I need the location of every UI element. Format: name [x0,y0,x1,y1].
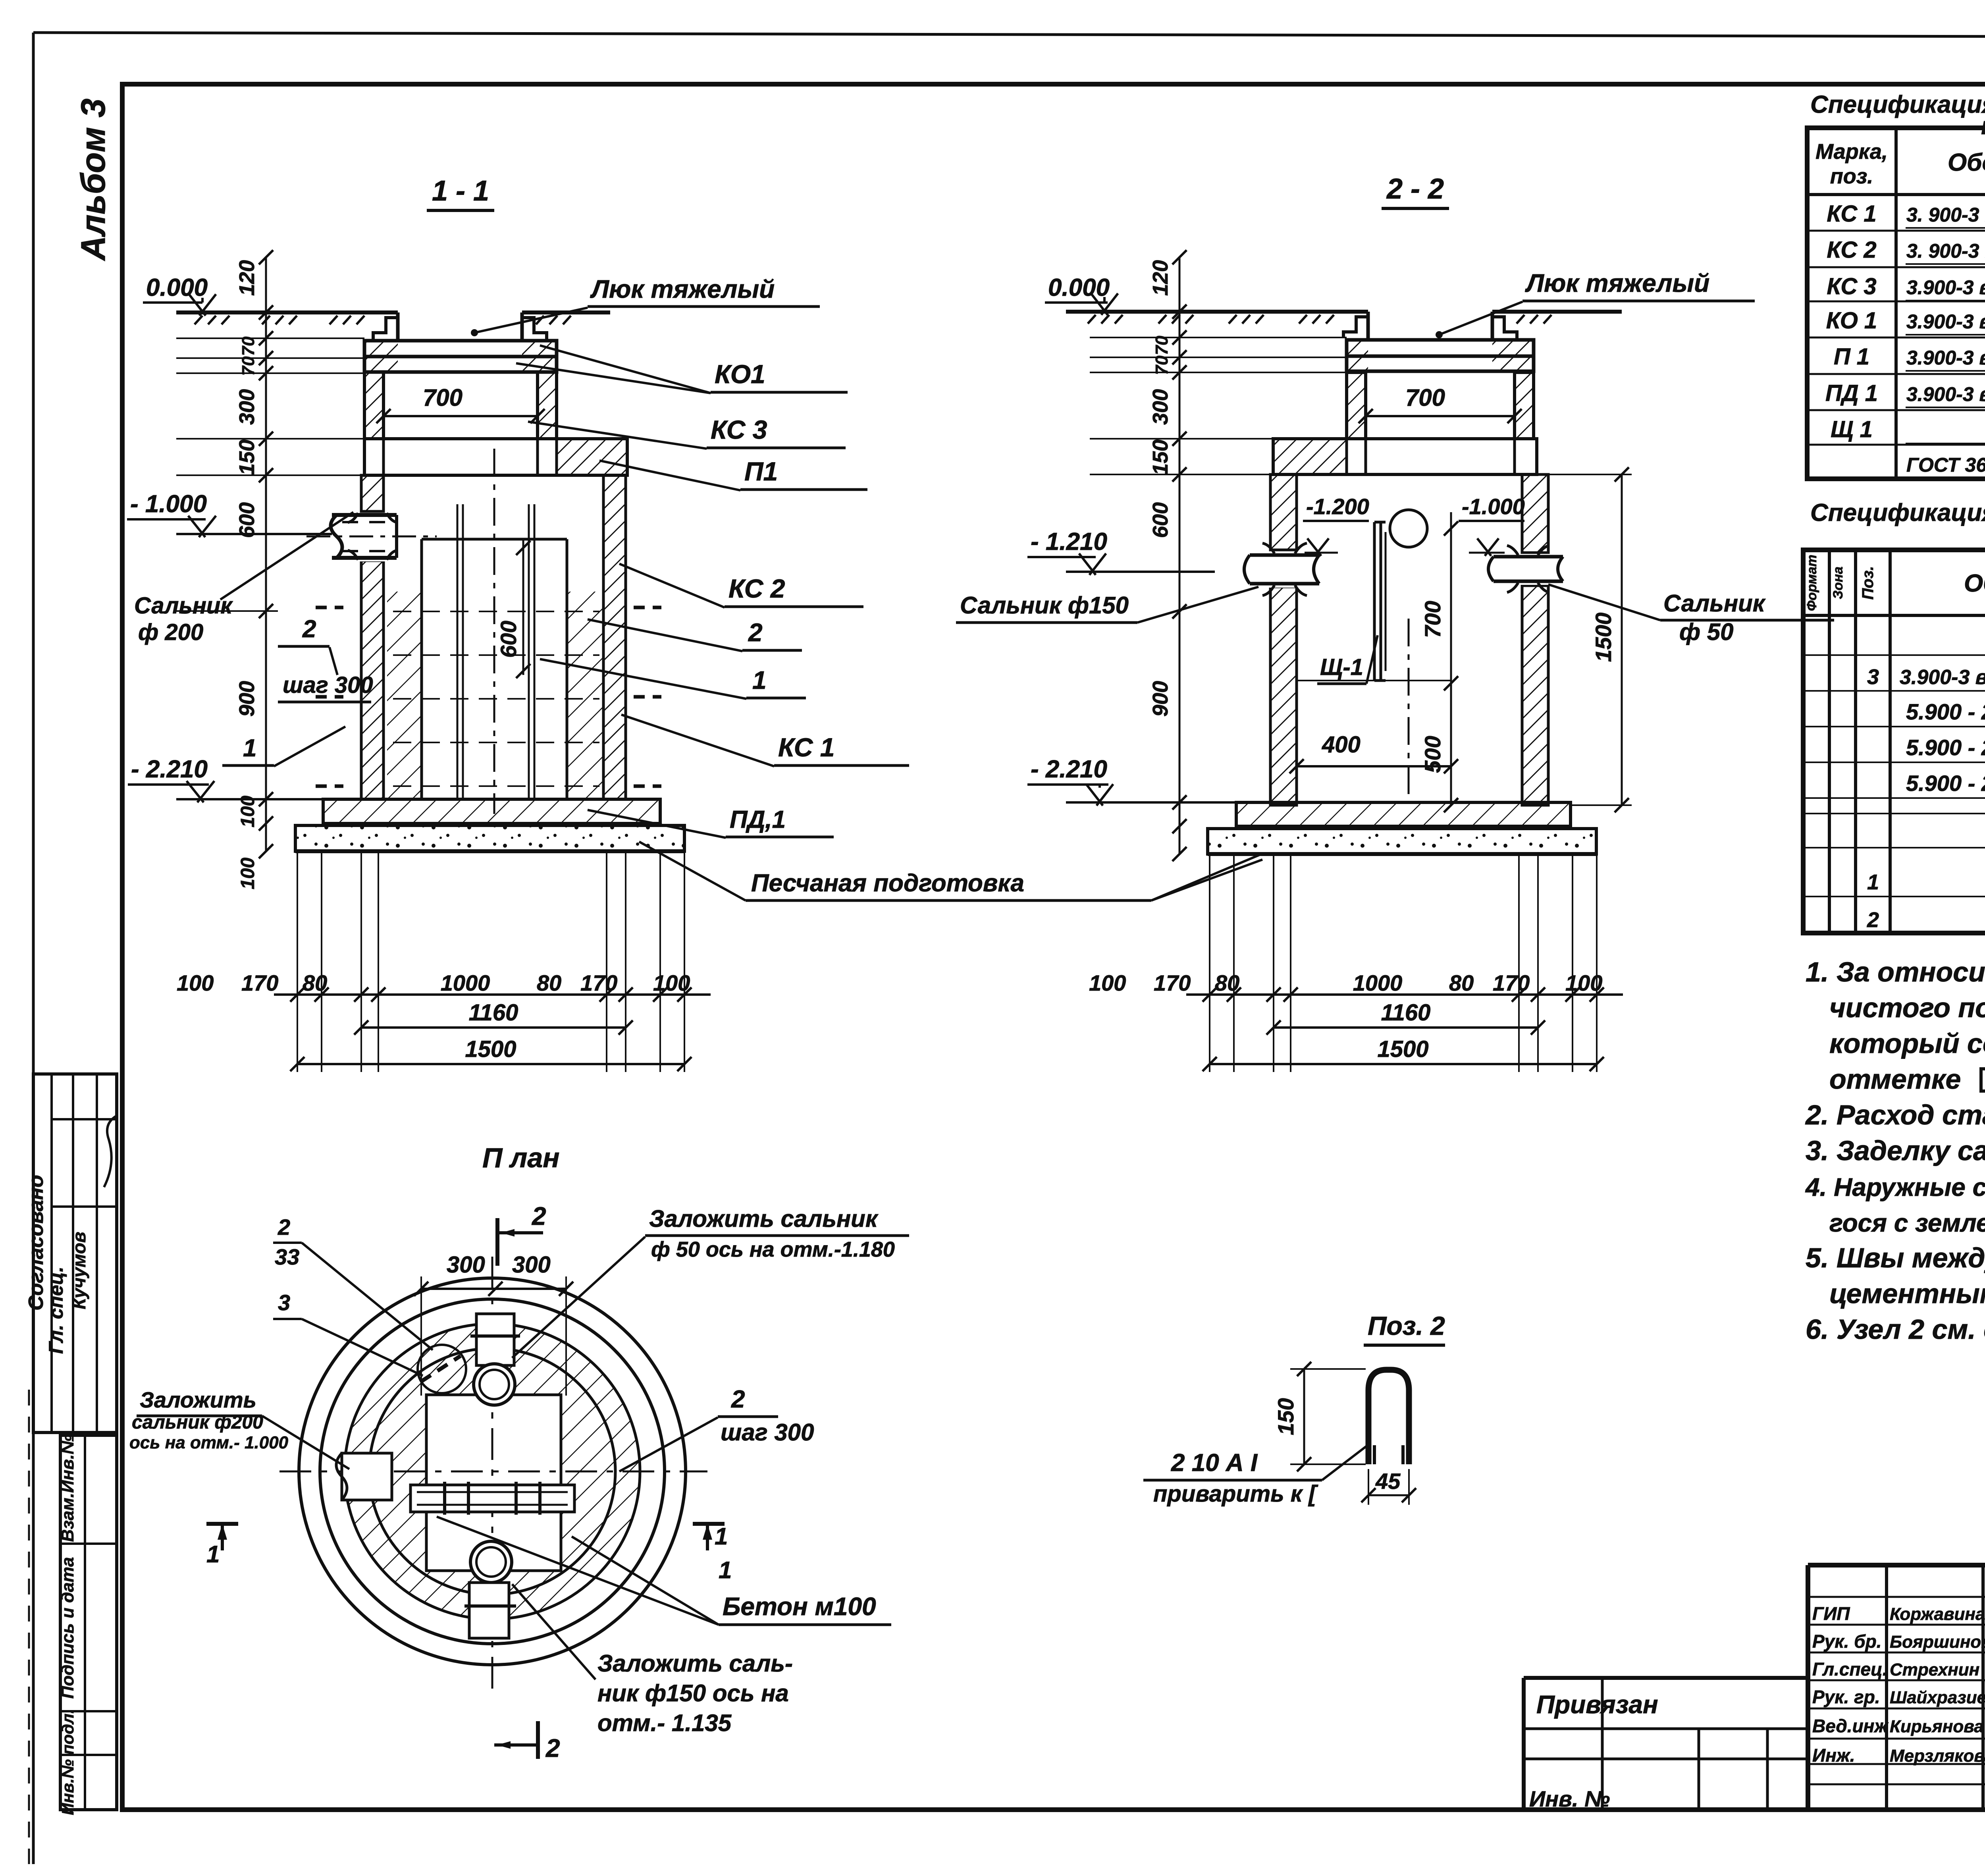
table1 outer box [1807,128,1985,479]
svg-text:1: 1 [715,1523,728,1550]
bottom slab PD1 (2-2) [1236,802,1571,826]
attachment table box [1524,1676,1808,1680]
svg-text:поз.: поз. [1830,164,1873,188]
svg-text:80: 80 [303,970,327,995]
svg-text:2 10 А I: 2 10 А I [1171,1449,1258,1477]
chamber rebar verticals (1-1) [457,504,459,799]
table1 header bottom line [1807,193,1985,196]
svg-text:Гл.спец.: Гл.спец. [1812,1659,1888,1679]
svg-text:шаг 300: шаг 300 [721,1419,814,1446]
svg-text:1000: 1000 [1353,970,1403,995]
svg-text:ПД,1: ПД,1 [730,806,786,833]
plan section mark 2 top [495,1218,499,1266]
svg-text:0.000: 0.000 [146,274,208,301]
chamber interior verticals (2-2) [1408,619,1410,802]
table1 column lines [1894,128,1898,479]
svg-text:2: 2 [278,1215,290,1240]
section 2-2 ground line [1066,310,1368,314]
svg-text:Формат: Формат [1804,555,1819,611]
svg-text:600: 600 [235,502,259,538]
manhole curb L-profile left (2-2) [1343,317,1368,338]
svg-text:170: 170 [241,970,278,995]
svg-text:Вед.инж: Вед.инж [1812,1716,1889,1736]
svg-text:Взам.Инв.№: Взам.Инв.№ [58,1434,77,1542]
svg-text:отм.- 1.135: отм.- 1.135 [597,1710,732,1736]
svg-text:120: 120 [235,260,259,296]
svg-text:45: 45 [1375,1469,1401,1494]
svg-text:100: 100 [237,796,258,827]
svg-text:120: 120 [1149,260,1172,296]
dim 1500 (1-1) [297,1063,684,1065]
svg-text:5. Швы между кольцами и: 5. Швы между кольцами и плитами заделать [1806,1242,1985,1273]
svg-text:Поз.: Поз. [1859,566,1877,600]
level line -2.210 (2-2) [1066,801,1236,804]
svg-text:ф 50 ось на отм.-1.180: ф 50 ось на отм.-1.180 [651,1238,895,1261]
svg-text:Подпись и дата: Подпись и дата [58,1557,77,1699]
svg-text:Песчаная подготовка: Песчаная подготовка [751,870,1024,897]
plan section mark 2 bottom [536,1721,540,1759]
svg-text:300: 300 [235,389,259,425]
svg-text:3: 3 [1867,665,1879,689]
svg-text:-1.000: -1.000 [1462,494,1525,519]
svg-text:Заложить сальник: Заложить сальник [649,1205,879,1232]
svg-text:ось на отм.- 1.000: ось на отм.- 1.000 [129,1433,289,1452]
stamp block Взам.инв / Подпись и дата / Инв.№ подл. [60,1435,117,1810]
ground hatch left (2-2) [1088,315,1096,324]
vertical dim 1500 right (2-2) [1621,474,1623,805]
svg-text:Шайхразиев: Шайхразиев [1890,1688,1985,1707]
svg-text:900: 900 [235,681,259,717]
svg-text:100: 100 [237,858,258,889]
svg-text:Привязан: Привязан [1536,1690,1658,1719]
monolithic fill hatch left (1-1) [387,592,422,799]
svg-text:70: 70 [1152,335,1172,355]
svg-text:цементным раствором марки: цементным раствором марки 100. [1829,1278,1985,1309]
svg-text:шаг 300: шаг 300 [283,672,373,698]
svg-text:1160: 1160 [1381,1000,1431,1026]
svg-text:П1: П1 [744,457,778,486]
svg-text:Сальник: Сальник [1663,590,1766,617]
svg-text:3.900-3 вып. 7 часть2: 3.900-3 вып. 7 часть2 [1900,666,1985,689]
svg-text:3.900-3 вып. 7 часть 1: 3.900-3 вып. 7 часть 1 [1906,310,1985,333]
svg-text:ГОСТ 3634 -79: ГОСТ 3634 -79 [1906,454,1985,476]
svg-text:6. Узел 2 см. серию 3. 90: 6. Узел 2 см. серию 3. 900 - 3 вып. 7 ча… [1806,1314,1985,1345]
svg-text:100: 100 [653,970,690,995]
svg-text:Гл. спец.: Гл. спец. [45,1267,67,1354]
svg-text:Инж.: Инж. [1812,1745,1855,1766]
svg-text:Рук. гр.: Рук. гр. [1812,1687,1880,1707]
dim 1500 (2-2) [1210,1063,1597,1065]
svg-text:Спецификация сборных констру: Спецификация сборных конструкций на отст… [1810,91,1985,118]
plan left pipe ф200 [342,1453,392,1500]
shield Щ-1 plate (2-2) [1373,522,1376,681]
plan section mark 1 right [693,1522,725,1526]
plan salnik circle top [474,1364,515,1405]
gland pipe ф150 left (2-2) [1246,552,1325,588]
svg-text:Заложить саль-: Заложить саль- [597,1650,793,1677]
chamber axis dash-dot (1-1) [493,449,495,814]
staple marks row left (1-1) [316,606,343,609]
svg-text:80: 80 [1215,970,1239,995]
svg-text:Бояршинов: Бояршинов [1890,1632,1985,1652]
shaft wall right KC2/KC1 (1-1) [603,475,626,799]
plan inner circle [369,1348,615,1595]
svg-text:2. Расход стали на монолитн: 2. Расход стали на монолитные участки 8,… [1805,1099,1985,1130]
svg-text:300: 300 [1149,389,1172,425]
svg-text:Кирьянова: Кирьянова [1890,1717,1984,1736]
svg-text:Согласовано: Согласовано [25,1175,48,1311]
svg-text:П 1: П 1 [1834,344,1869,370]
svg-text:70: 70 [239,356,258,376]
svg-text:1: 1 [1867,870,1879,894]
staple U-shape (Поз.2) [1368,1370,1409,1464]
svg-text:1. За относительную отметку: 1. За относительную отметку 0.000 принят… [1806,956,1985,987]
plan outer circle [299,1278,686,1665]
svg-text:гося с землей обмазать гор: гося с землей обмазать горячим битумом з… [1829,1209,1985,1237]
svg-text:Инв. №: Инв. № [1529,1786,1610,1811]
svg-text:Стрехнин: Стрехнин [1890,1660,1979,1679]
svg-text:Обозначение: Обозначение [1948,149,1985,176]
KO1 leaders [540,345,711,393]
dim row 100-170-80-1000-80-170-100 (1-1) [274,993,711,996]
manhole frame verticals (2-2) [1366,312,1370,340]
section 1-1 ground line [176,310,398,314]
dim 45 (Поз.2) [1368,1494,1409,1496]
svg-text:100: 100 [1089,970,1126,995]
svg-text:КС 2: КС 2 [728,574,785,603]
svg-text:300: 300 [447,1252,485,1278]
paper fold dashed line [28,1390,30,1864]
svg-text:5.900 - 2: 5.900 - 2 [1906,735,1985,760]
svg-text:-1.200: -1.200 [1306,494,1369,519]
neck ring KC3 (1-1) [364,372,384,439]
vertical dim 700/500 (2-2) [1450,512,1452,805]
svg-text:Инв.№ подл.: Инв.№ подл. [58,1709,77,1815]
svg-text:100: 100 [1565,970,1602,995]
svg-text:3: 3 [278,1290,290,1315]
level line -1.000 (1-1) [176,533,332,535]
svg-text:1: 1 [752,666,767,694]
table2 outer box [1803,550,1985,933]
svg-text:сальник ф200: сальник ф200 [132,1412,263,1433]
ground hatching left of cover [195,316,202,324]
svg-text:3.900-3 вып. 7 часть 1: 3.900-3 вып. 7 часть 1 [1906,347,1985,369]
thin horizontal ties (1-1) [393,611,599,612]
gland collar flares (1-1) [348,513,397,560]
svg-text:4. Наружные стены колодца -: 4. Наружные стены колодца - отстойника, … [1805,1173,1985,1201]
svg-text:3.900-3 вып.7 часть 1: 3.900-3 вып.7 часть 1 [1906,383,1985,405]
svg-text:2 - 2: 2 - 2 [1386,173,1444,205]
manhole frame verticals (1-1) [396,312,400,341]
svg-text:Спецификация изделий на отс: Спецификация изделий на отстойный колоде… [1810,499,1985,526]
gland collar flares left pipe (2-2) [1262,543,1307,596]
leader from sand to Песчаная label [1151,854,1262,900]
projection lines below (2-2) [1209,854,1210,1072]
svg-text:ГИП: ГИП [1812,1603,1850,1624]
svg-text:Щ-1: Щ-1 [1320,654,1363,680]
svg-text:- 2.210: - 2.210 [131,756,208,783]
table2 header bottom line [1803,614,1985,617]
chain extension lines (2-2) [1090,337,1347,338]
chain extension lines (1-1) [176,337,364,339]
plan chamber square [426,1395,561,1571]
dim 1160 (2-2) [1274,1026,1538,1029]
svg-text:П лан: П лан [482,1142,560,1173]
shaft wall right (2-2) [1522,474,1548,553]
svg-text:ф 200: ф 200 [138,619,203,645]
svg-text:170: 170 [580,970,617,995]
svg-text:Люк тяжелый: Люк тяжелый [590,275,775,303]
svg-text:0.000: 0.000 [1048,274,1110,301]
svg-text:80: 80 [537,970,561,995]
svg-text:приварить к [: приварить к [ [1153,1481,1318,1507]
cover slab P1 (1-1) [364,439,627,475]
plan detail blob (узел 3) [418,1345,466,1393]
svg-text:ф 50: ф 50 [1679,619,1734,645]
svg-text:Поз. 2: Поз. 2 [1368,1311,1445,1340]
svg-text:170: 170 [1493,970,1530,995]
svg-text:1160: 1160 [469,1000,518,1026]
svg-text:3.900-3 вып. 7 часть 1: 3.900-3 вып. 7 часть 1 [1906,276,1985,299]
leader salnik200 [220,512,353,600]
svg-text:КС 3: КС 3 [711,415,767,444]
svg-text:отметке: отметке [1829,1064,1961,1095]
leader (Поз.2) [1322,1445,1368,1480]
outer sheet border [33,33,1985,38]
svg-text:1: 1 [719,1557,732,1583]
svg-text:Обозначение: Обозначение [1964,570,1985,597]
plan center crosshair [279,1471,707,1473]
plan section mark 1 left [206,1522,238,1526]
dim 1160 (1-1) [361,1026,626,1029]
ground hatch right (2-2) [1517,315,1524,324]
shaft wall left (2-2) [1270,474,1297,550]
svg-text:70: 70 [1152,355,1172,375]
svg-text:Мерзлякова: Мерзлякова [1890,1746,1985,1766]
svg-text:400: 400 [1322,732,1361,758]
plan crossbeam channel [410,1485,574,1512]
svg-text:- 1.000: - 1.000 [130,490,207,518]
svg-text:- 1.210: - 1.210 [1031,528,1107,555]
leader to cover (1-1) [474,308,588,333]
cover slab P1 (2-2) [1273,439,1537,474]
svg-text:3. Заделку сальников см. се: 3. Заделку сальников см. серию 5. 900 - … [1806,1135,1985,1166]
dim row (2-2) [1186,993,1623,996]
svg-text:5.900 - 2: 5.900 - 2 [1906,771,1985,796]
svg-text:1: 1 [206,1541,220,1568]
dim 150 (Поз.2) [1303,1369,1305,1464]
plan ring wall circle [345,1324,640,1619]
svg-text:- 2.210: - 2.210 [1031,756,1107,783]
svg-text:1: 1 [243,735,256,762]
manhole curb L-profile left (1-1) [373,318,398,339]
svg-text:КО1: КО1 [715,359,765,389]
svg-text:2: 2 [748,618,763,647]
signature table columns [1885,1565,1888,1810]
left dimension chain (1-1) [265,257,267,851]
svg-text:Кучумов: Кучумов [69,1232,89,1309]
sand bed (1-1) [295,825,684,851]
empty elevation box in note 1 [1981,1069,1985,1091]
svg-text:5.900 - 2: 5.900 - 2 [1906,699,1985,724]
svg-text:2: 2 [302,615,316,643]
svg-text:2: 2 [1867,908,1879,932]
inner chamber walls (1-1) [420,539,423,799]
pipe axis dash-dot (1-1) [306,536,437,538]
svg-text:600: 600 [1149,502,1172,538]
gland pipe ф50 right (2-2) [1490,554,1569,585]
signature table rows [1808,1596,1985,1598]
svg-text:КО 1: КО 1 [1826,308,1877,334]
title block top line [1808,1563,1985,1568]
svg-text:700: 700 [1420,601,1445,638]
svg-text:Щ 1: Щ 1 [1831,416,1873,442]
svg-text:КС 2: КС 2 [1827,237,1876,263]
svg-text:2: 2 [731,1386,745,1413]
svg-text:Коржавина: Коржавина [1890,1604,1985,1624]
svg-text:150: 150 [235,440,259,475]
svg-text:Заложить: Заложить [140,1387,256,1412]
table2 column lines [1828,550,1831,933]
svg-text:170: 170 [1154,970,1191,995]
svg-text:чистого пола производствен: чистого пола производственного корпуса N… [1829,992,1985,1023]
neck ring KC3 (2-2) [1347,372,1366,439]
svg-text:Сальник: Сальник [134,593,233,619]
svg-text:1 - 1: 1 - 1 [432,175,489,207]
svg-text:1500: 1500 [1377,1036,1428,1062]
svg-text:1500: 1500 [465,1036,516,1062]
gland seal pipe ф200 (1-1) [327,513,399,561]
svg-text:700: 700 [1405,384,1445,411]
title block left vertical [1806,1565,1810,1810]
shaft wall left KC2/KC1 (1-1) [361,475,384,511]
svg-text:КС 3: КС 3 [1827,274,1876,299]
svg-text:Альбом 3: Альбом 3 [74,98,112,261]
plan monolithic fill hatch between square and circle [369,1348,615,1595]
support rings KO1 (2-2) [1347,340,1534,356]
svg-text:80: 80 [1449,970,1474,995]
projection lines below (1-1) [297,851,298,1072]
plan top pipe ф50 [476,1314,514,1365]
plan bottom salnik circle [470,1541,512,1583]
gland collar flares right pipe (2-2) [1507,546,1549,592]
svg-text:КС 1: КС 1 [778,733,834,762]
svg-text:600: 600 [496,621,521,657]
svg-text:Бетон м100: Бетон м100 [723,1592,876,1621]
svg-text:2: 2 [545,1734,560,1762]
plan ring wall hatch annulus [345,1324,640,1619]
stamp block Согласовано [33,1074,117,1433]
svg-text:900: 900 [1149,681,1172,717]
svg-text:33: 33 [275,1244,299,1269]
svg-text:Марка,: Марка, [1815,140,1888,164]
svg-text:100: 100 [177,970,214,995]
svg-text:ник ф150 ось на: ник ф150 ось на [597,1680,789,1706]
plan bottom pipe ф150 [469,1583,509,1638]
svg-text:ПД 1: ПД 1 [1825,380,1878,406]
svg-text:150: 150 [1149,440,1172,475]
svg-text:3. 900-3 вып. 7 часть 1: 3. 900-3 вып. 7 часть 1 [1906,240,1985,262]
svg-text:который соответствует абсол: который соответствует абсолютной [1829,1028,1985,1059]
svg-text:2: 2 [532,1202,546,1230]
plan second circle [320,1299,665,1644]
svg-text:Сальник ф150: Сальник ф150 [960,592,1129,619]
svg-text:Зона: Зона [1831,567,1846,599]
svg-text:700: 700 [423,384,463,411]
svg-text:Люк тяжелый: Люк тяжелый [1525,269,1709,297]
svg-text:КС 1: КС 1 [1827,201,1876,227]
svg-text:150: 150 [1273,1398,1298,1435]
level line -2.210 (1-1) [176,798,323,800]
svg-text:1500: 1500 [1591,613,1616,662]
manhole curb L-profile right (2-2) [1492,317,1517,338]
ground hatching right of cover [536,316,544,324]
svg-text:70: 70 [239,336,258,356]
monolithic fill hatch right (1-1) [567,592,603,799]
svg-text:Рук. бр.: Рук. бр. [1812,1631,1882,1652]
sand bed (2-2) [1208,829,1596,854]
signature squiggle in stamp [104,1116,117,1187]
svg-text:300: 300 [512,1252,551,1278]
oil catcher circle (2-2) [1390,510,1427,547]
manhole curb L-profile right (1-1) [522,318,547,339]
table1 row lines [1807,230,1985,232]
bottom slab PD1 (1-1) [323,799,660,823]
support rings KO1 (1-1) [364,341,557,357]
table2 row lines [1803,654,1985,656]
level line -1.210 (2-2) [1066,571,1215,573]
staple marks row right (1-1) [634,606,661,609]
svg-text:3. 900-3 вып. 7 часть 1: 3. 900-3 вып. 7 часть 1 [1906,204,1985,226]
svg-text:1000: 1000 [441,970,490,995]
left dimension chain (2-2) [1179,257,1181,854]
